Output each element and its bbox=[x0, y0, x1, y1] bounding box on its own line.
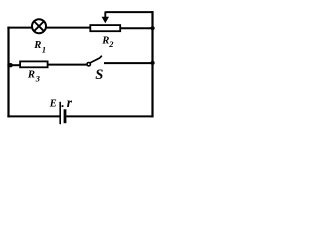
svg-text:2: 2 bbox=[108, 40, 113, 49]
label R3 bbox=[27, 69, 40, 84]
wire wiper to top-right bbox=[105, 11, 153, 13]
junction middle-left bbox=[8, 63, 12, 67]
battery terminal speck bbox=[62, 105, 64, 107]
resistor R3 body bbox=[20, 61, 47, 67]
wire top-left to lamp bbox=[7, 27, 32, 29]
wire left vertical to R3 bbox=[7, 64, 20, 66]
junction top-right bbox=[151, 26, 155, 30]
svg-text:R: R bbox=[27, 69, 35, 81]
label R1 bbox=[33, 39, 46, 55]
rheostat R2 wiper arrow bbox=[102, 12, 109, 24]
wire switch to right vertical bbox=[104, 62, 154, 64]
wire R2 to right vertical bbox=[120, 27, 154, 29]
wire bottom-left to battery bbox=[7, 115, 59, 117]
switch S bbox=[87, 56, 102, 66]
svg-text:R: R bbox=[33, 39, 41, 51]
svg-text:1: 1 bbox=[42, 45, 46, 54]
wire right vertical bbox=[151, 11, 153, 117]
rheostat R2 body bbox=[90, 25, 120, 31]
svg-text:r: r bbox=[67, 95, 73, 110]
wire lamp to R2 bbox=[46, 27, 91, 29]
svg-text:3: 3 bbox=[35, 75, 40, 84]
svg-text:E: E bbox=[49, 99, 57, 110]
wire R3 to switch bbox=[48, 64, 87, 66]
junction middle-right bbox=[151, 61, 155, 65]
battery negative plate bbox=[64, 109, 67, 123]
svg-text:S: S bbox=[95, 67, 103, 83]
label R2 bbox=[101, 34, 113, 49]
battery positive plate bbox=[59, 102, 61, 124]
lamp R1 bbox=[32, 19, 46, 33]
wire left vertical bbox=[7, 27, 9, 118]
wire battery to bottom-right bbox=[66, 115, 153, 117]
